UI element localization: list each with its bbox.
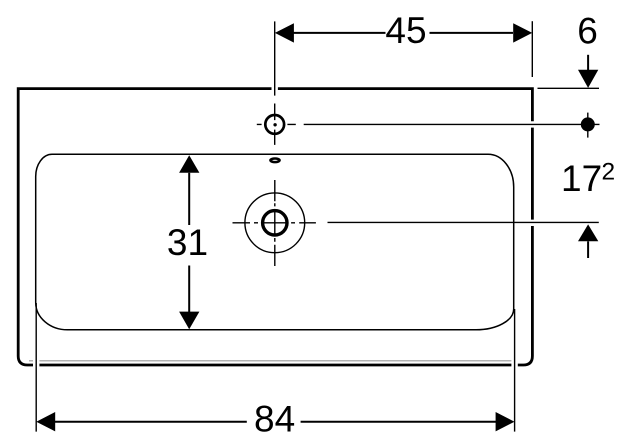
svg-text:84: 84 bbox=[254, 398, 295, 439]
drain vertical centerline bbox=[274, 180, 276, 266]
tap hole circle bbox=[265, 115, 284, 134]
tap hole horizontal centerline bbox=[257, 123, 296, 125]
svg-text:17: 17 bbox=[561, 158, 602, 199]
dimension 31: up arrowhead bbox=[179, 155, 199, 173]
extension of basin top edge to the right bbox=[538, 87, 600, 89]
dimension 45: left arrowhead bbox=[275, 23, 294, 42]
basin front rim hairline bbox=[29, 360, 513, 362]
drain horizontal centerline bbox=[233, 222, 316, 224]
halo of extension line for 45 (tap) crossing top edge bbox=[272, 80, 278, 96]
dimension 31: down arrowhead bbox=[179, 312, 199, 330]
tap hole vertical centerline bbox=[274, 104, 276, 145]
dimension 84: left arrowhead bbox=[36, 412, 55, 431]
dimension 84: dimension line bbox=[55, 421, 497, 423]
dimension 45: extension line above tap hole bbox=[274, 21, 276, 95]
tick through measuring dot bbox=[587, 113, 589, 138]
svg-text:45: 45 bbox=[385, 10, 426, 51]
svg-text:2: 2 bbox=[602, 158, 616, 185]
svg-text:31: 31 bbox=[167, 222, 208, 263]
inner bowl outline bbox=[36, 154, 514, 329]
halo of tap-to-dot line crossing basin right edge bbox=[520, 121, 545, 127]
dimension 84: right extension line bbox=[514, 309, 516, 432]
dimension 31: dimension line bbox=[188, 173, 190, 312]
line from tap hole to measuring point dot bbox=[304, 123, 600, 125]
svg-text:6: 6 bbox=[577, 10, 598, 51]
halo of drain line crossing bowl and basin right edges bbox=[500, 220, 545, 226]
dimension 84: left extension line bbox=[35, 303, 37, 432]
dimension 45: extension line above basin right edge bbox=[531, 21, 533, 77]
basin outer outline bbox=[18, 89, 532, 365]
drain outer circle bbox=[245, 193, 305, 253]
halo of 84 left extension line crossing bottom edge bbox=[33, 340, 39, 420]
overflow hole bbox=[270, 159, 279, 163]
tap hole center dot bbox=[273, 123, 276, 126]
dimension 17: up arrow bbox=[578, 224, 598, 241]
dimension 45: dimension line bbox=[294, 32, 514, 34]
halo of 84 right extension line crossing bottom edge bbox=[511, 340, 517, 420]
dimension 45: right arrowhead bbox=[513, 23, 532, 42]
drain inner circle bbox=[263, 211, 287, 235]
dimension 84: right arrowhead bbox=[496, 412, 515, 431]
dimension 6: down arrow bbox=[587, 55, 589, 70]
line from drain to right (17 dimension reference) bbox=[328, 221, 599, 223]
measuring point dot bbox=[581, 117, 595, 131]
